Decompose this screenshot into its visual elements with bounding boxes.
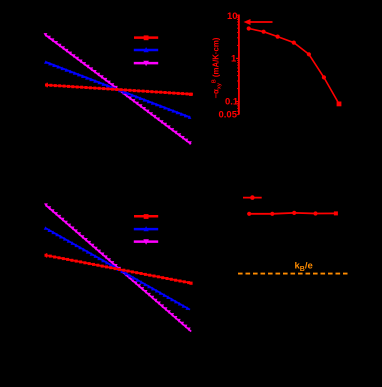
svg-text:1: 1	[231, 54, 237, 65]
svg-text:10: 10	[227, 11, 238, 22]
svg-text:0.1: 0.1	[225, 97, 239, 108]
svg-text:0.05: 0.05	[219, 110, 238, 121]
